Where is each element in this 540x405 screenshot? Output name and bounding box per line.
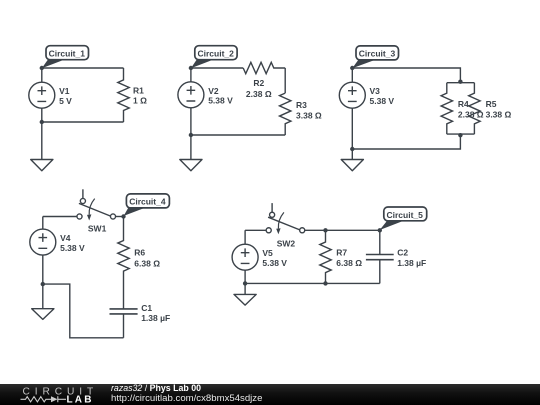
wire bottom C1 [42, 121, 124, 123]
node dot C4 top [121, 214, 125, 218]
wire parallel top bar [447, 82, 475, 84]
resistor R3 [280, 93, 291, 135]
svg-text:V2: V2 [208, 86, 219, 96]
svg-text:http://circuitlab.com/cx8bmx54: http://circuitlab.com/cx8bmx54sdjze [111, 393, 262, 404]
svg-text:R2: R2 [253, 78, 264, 88]
wire bottom C5 [245, 282, 380, 284]
wire switch to R6 node [116, 216, 124, 218]
resistor R2 [243, 62, 285, 73]
node dot C5 R7 bottom [323, 281, 327, 285]
R5 value label [486, 99, 512, 120]
wire V5 to switch [245, 229, 266, 231]
label balloon Circuit_4 [124, 194, 170, 216]
svg-text:6.38 Ω: 6.38 Ω [134, 258, 160, 268]
voltage source V5 [232, 230, 258, 283]
R6 value label [134, 248, 160, 269]
resistor R1 [118, 68, 129, 122]
node dot C3 junction bottom [458, 133, 462, 137]
wire bottom C3 [352, 134, 460, 149]
wire V4 to switch [43, 216, 77, 218]
resistor R5 [469, 83, 480, 134]
svg-text:R4: R4 [458, 99, 469, 109]
node dot C3 junction top [458, 80, 462, 84]
svg-text:R6: R6 [134, 248, 145, 258]
R7 value label [336, 248, 362, 268]
svg-text:1.38 µF: 1.38 µF [397, 258, 426, 268]
voltage source V1 [29, 68, 55, 122]
node dot C5 R7 top [323, 228, 327, 232]
V3 value label [370, 86, 395, 106]
node dot C5 bottom-left [243, 281, 247, 285]
ground C1 [31, 122, 53, 171]
label balloon Circuit_1 [42, 46, 89, 68]
wire bottom C4 [43, 284, 124, 338]
svg-text:3.38 Ω: 3.38 Ω [296, 110, 322, 120]
R3 value label [296, 100, 322, 121]
resistor R6 [118, 217, 129, 309]
wire switch to nodes [305, 229, 380, 231]
svg-text:R7: R7 [336, 248, 347, 258]
node dot C1 bottom [40, 120, 44, 124]
C1 value label [141, 303, 170, 323]
svg-text:SW2: SW2 [277, 238, 296, 248]
logo squiggle resistor and diode [21, 396, 67, 402]
ground C5 [234, 283, 256, 305]
svg-text:5.38 V: 5.38 V [370, 96, 395, 106]
svg-text:Circuit_1: Circuit_1 [49, 48, 86, 58]
svg-text:LAB: LAB [67, 395, 94, 405]
resistor R4 [441, 83, 452, 134]
svg-text:V1: V1 [59, 86, 70, 96]
svg-text:1 Ω: 1 Ω [133, 96, 147, 106]
svg-text:Circuit_2: Circuit_2 [198, 48, 235, 58]
label balloon Circuit_3 [352, 46, 398, 68]
svg-text:R5: R5 [486, 99, 497, 109]
ground C2 [180, 135, 202, 171]
svg-text:2.38 Ω: 2.38 Ω [246, 89, 272, 99]
V4 value label [60, 233, 85, 253]
wire parallel bottom bar [447, 133, 475, 135]
R1 value label [133, 85, 147, 105]
V5 value label [262, 248, 287, 268]
ground C3 [341, 149, 363, 171]
capacitor C1 [110, 309, 138, 338]
svg-text:5.38 V: 5.38 V [208, 96, 233, 106]
label balloon Circuit_5 [380, 207, 427, 230]
wire right C2 [284, 68, 286, 93]
svg-text:V4: V4 [60, 233, 71, 243]
svg-text:razas32 / Phys Lab 00: razas32 / Phys Lab 00 [111, 383, 201, 393]
node dot C2 bottom [189, 133, 193, 137]
svg-text:1.38 µF: 1.38 µF [141, 313, 170, 323]
svg-text:V3: V3 [370, 86, 381, 96]
switch SW1 [77, 189, 116, 220]
svg-text:5.38 V: 5.38 V [262, 258, 287, 268]
svg-text:V5: V5 [262, 248, 273, 258]
capacitor C2 [366, 230, 394, 283]
svg-text:Circuit_4: Circuit_4 [129, 197, 166, 207]
voltage source V3 [339, 68, 365, 149]
wire top C2 [191, 67, 243, 69]
footer bar [0, 384, 540, 405]
node dot C4 bottom [41, 282, 45, 286]
svg-text:R3: R3 [296, 100, 307, 110]
wire bottom C2 [191, 134, 285, 136]
svg-text:C2: C2 [397, 248, 408, 258]
node dot C2 top [189, 66, 193, 70]
svg-text:SW1: SW1 [88, 224, 107, 234]
svg-text:Circuit_3: Circuit_3 [359, 49, 396, 59]
svg-text:5 V: 5 V [59, 96, 72, 106]
svg-text:Circuit_5: Circuit_5 [387, 210, 424, 220]
svg-text:C1: C1 [141, 303, 152, 313]
node dot C3 bottom-left [350, 147, 354, 151]
node dot C1 top [40, 66, 44, 70]
voltage source V2 [178, 68, 204, 135]
node dot C5 C2 top [378, 228, 382, 232]
ground C4 [32, 284, 54, 319]
node dot C3 top-left [350, 66, 354, 70]
svg-text:6.38 Ω: 6.38 Ω [336, 258, 362, 268]
V1 value label [59, 86, 72, 106]
C2 value label [397, 248, 426, 269]
switch SW2 [266, 203, 305, 234]
resistor R7 [320, 230, 331, 283]
wire top C1 [42, 67, 124, 69]
svg-text:R1: R1 [133, 85, 144, 95]
svg-text:3.38 Ω: 3.38 Ω [486, 110, 512, 120]
R4 value label [458, 99, 484, 120]
svg-text:2.38 Ω: 2.38 Ω [458, 110, 484, 120]
label balloon Circuit_2 [191, 46, 237, 68]
voltage source V4 [30, 217, 56, 285]
V2 value label [208, 86, 233, 106]
svg-text:5.38 V: 5.38 V [60, 243, 85, 253]
wire top C3 [352, 68, 460, 83]
R2 value label [246, 78, 272, 99]
